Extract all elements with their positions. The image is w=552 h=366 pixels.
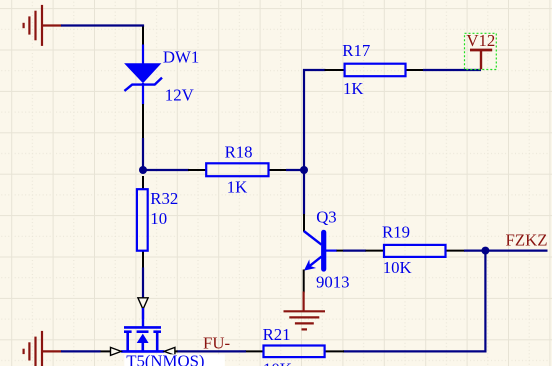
svg-text:10: 10 bbox=[150, 209, 167, 228]
svg-text:1K: 1K bbox=[227, 177, 248, 196]
svg-text:R19: R19 bbox=[382, 223, 410, 242]
wire: node C down and left to R21 bbox=[343, 251, 485, 352]
mosfet T5 bbox=[100, 308, 178, 355]
ground GND1 (top-left, rotated) bbox=[24, 5, 62, 46]
svg-text:1K: 1K bbox=[343, 79, 364, 98]
svg-text:V12: V12 bbox=[466, 31, 495, 50]
junction node B bbox=[300, 166, 308, 174]
open arrow on gate wire bbox=[138, 298, 148, 310]
ground GND2 (bottom-left, rotated) bbox=[24, 331, 62, 366]
wire: top ground to DW1 bbox=[61, 26, 143, 28]
wire: R32 to T5 gate bbox=[142, 268, 144, 299]
zener diode DW1 bbox=[124, 27, 162, 140]
svg-text:R21: R21 bbox=[263, 325, 291, 344]
wire: node A to R18 bbox=[143, 169, 189, 171]
svg-text:R32: R32 bbox=[150, 189, 178, 208]
svg-text:FU-: FU- bbox=[203, 333, 230, 352]
wire: DW1 to node A bbox=[142, 138, 144, 170]
wire: arrow to gate bbox=[142, 309, 144, 320]
svg-text:DW1: DW1 bbox=[163, 47, 199, 66]
svg-text:Q3: Q3 bbox=[316, 208, 337, 227]
transistor Q3 bbox=[304, 214, 344, 293]
svg-text:FZKZ: FZKZ bbox=[506, 231, 548, 250]
svg-text:9013: 9013 bbox=[316, 272, 350, 291]
wire: R19 to node C bbox=[464, 250, 485, 252]
wire: R17 to V12 bbox=[423, 69, 481, 71]
resistor R18 bbox=[188, 163, 287, 176]
wire: node B up to R17 row bbox=[304, 70, 326, 215]
svg-text:10K: 10K bbox=[383, 258, 412, 277]
svg-text:10K: 10K bbox=[263, 359, 292, 366]
junction node C bbox=[481, 247, 489, 255]
svg-text:T5(NMOS): T5(NMOS) bbox=[126, 352, 204, 366]
ground (under Q3) bbox=[284, 292, 326, 330]
wire: node C to FZKZ bbox=[485, 250, 547, 252]
svg-text:12V: 12V bbox=[165, 86, 194, 105]
resistor R21 bbox=[245, 346, 344, 358]
resistor R19 bbox=[366, 245, 466, 257]
svg-text:R18: R18 bbox=[225, 142, 253, 161]
wire: R18 to node B bbox=[286, 169, 304, 171]
svg-text:R17: R17 bbox=[342, 41, 370, 60]
wire: T5 drain to R21 bbox=[177, 350, 247, 352]
wire: Q3 base to R19 bbox=[343, 250, 366, 252]
wire: bottom ground to T5 bbox=[61, 350, 101, 352]
junction node A bbox=[139, 166, 147, 174]
resistor R17 bbox=[325, 64, 425, 76]
resistor R32 bbox=[137, 176, 148, 269]
edit box behind T5 label bbox=[124, 354, 225, 366]
power port V12 bbox=[465, 31, 497, 70]
